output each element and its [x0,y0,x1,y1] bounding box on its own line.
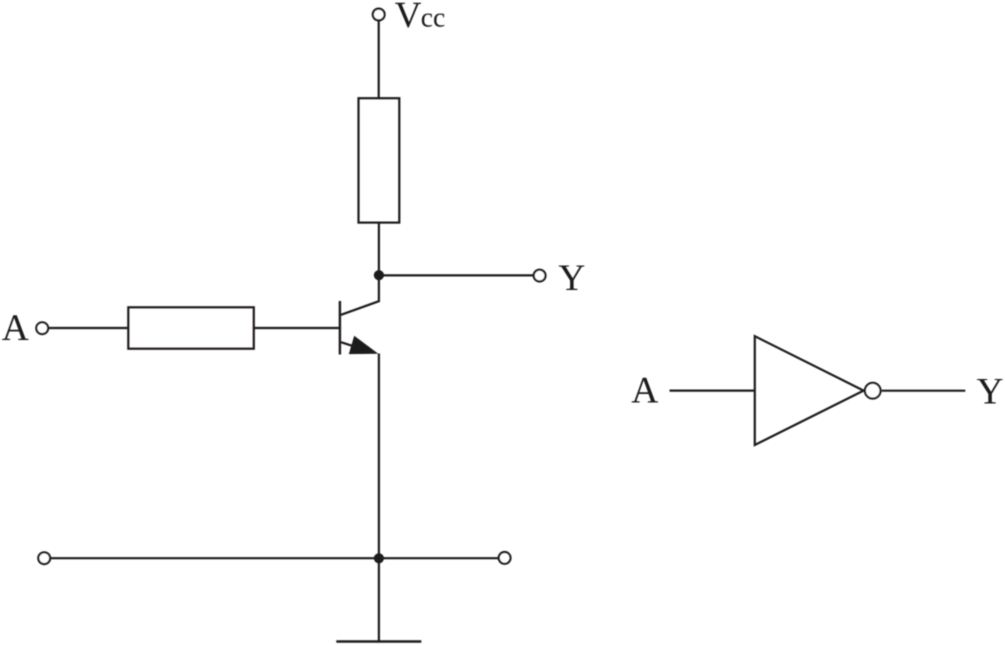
svg-text:A: A [631,371,658,412]
A input terminal [36,322,48,334]
wire emitter to ground rail [378,354,380,642]
svg-text:A: A [2,308,29,349]
resistor RC (collector) [359,98,400,222]
svg-text:Y: Y [977,371,1004,412]
transistor Q1 emitter arrow [349,336,379,354]
ground [336,640,421,642]
node collector junction [374,270,384,280]
node emitter ground junction [374,553,384,563]
svg-text:Y: Y [558,258,585,299]
ground rail right terminal [499,552,511,564]
wire collector node to Y terminal [379,274,534,276]
wire RC to collector node [378,223,380,276]
wire inverter output [882,390,966,392]
inverter U1 bubble [865,383,881,399]
Y output terminal [534,270,546,282]
svg-text:V: V [395,0,422,36]
ground rail left terminal [38,552,50,564]
wire ground rail [50,557,499,559]
inverter U1 triangle [755,336,864,445]
wire collector lead [341,275,379,315]
wire inverter input [670,390,755,392]
transistor Q1 base bar [339,301,341,355]
transistor Q1 emitter lead [341,342,366,350]
wire Vcc to RC [378,20,380,98]
svg-text:cc: cc [421,2,445,33]
resistor RB (base) [128,307,254,348]
wire A terminal to RB [49,327,128,329]
Vcc terminal [373,9,385,21]
wire RB to base [254,327,339,329]
